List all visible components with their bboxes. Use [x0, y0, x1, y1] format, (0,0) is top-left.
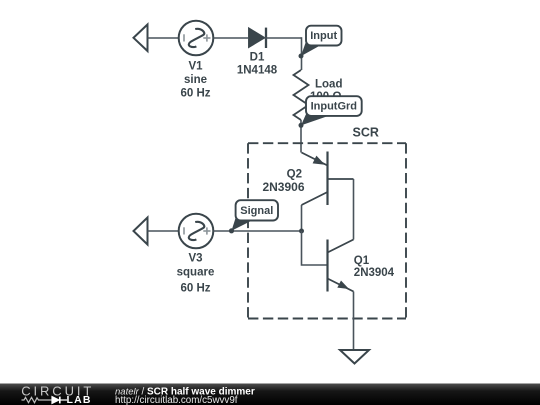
label V3 — [177, 253, 215, 295]
node Input junction — [299, 54, 304, 59]
logo CIRCUIT — [21, 384, 94, 399]
svg-text:2N3904: 2N3904 — [354, 267, 395, 279]
svg-text:Load: Load — [315, 79, 342, 91]
ground — [340, 350, 369, 364]
node Signal junction — [229, 228, 234, 233]
svg-text:Signal: Signal — [240, 205, 273, 217]
flag InputGrd — [301, 96, 362, 125]
logo LAB — [67, 394, 92, 405]
logo doodle resistor+diode — [22, 397, 68, 404]
svg-text:InputGrd: InputGrd — [311, 101, 357, 113]
wire — [265, 37, 302, 39]
node Q2 collector junction — [299, 229, 304, 234]
svg-text:V3: V3 — [188, 253, 202, 265]
svg-text:sine: sine — [184, 74, 207, 86]
footer bar — [0, 384, 540, 405]
svg-text:60 Hz: 60 Hz — [180, 88, 210, 100]
wire — [353, 292, 355, 351]
value label 100 ohm (mostly hidden) — [310, 91, 342, 103]
label V1 — [180, 60, 210, 99]
label D1 — [237, 51, 278, 76]
svg-text:60 Hz: 60 Hz — [180, 282, 210, 294]
svg-text:D1: D1 — [250, 51, 265, 63]
wire — [301, 37, 303, 70]
label Q2 — [262, 169, 304, 195]
label SCR — [353, 125, 379, 139]
flag Input — [301, 26, 342, 57]
port terminal bottom-left — [134, 218, 148, 245]
resistor Load — [294, 70, 309, 120]
footer title — [115, 386, 255, 405]
svg-text:2N3906: 2N3906 — [262, 180, 304, 194]
svg-text:Input: Input — [310, 30, 337, 42]
wire Signal — [213, 230, 301, 232]
label Load — [315, 79, 342, 91]
wire — [301, 205, 303, 231]
wire — [148, 37, 179, 39]
flag Signal — [232, 200, 279, 231]
svg-text:V1: V1 — [188, 60, 203, 72]
svg-text:SCR: SCR — [353, 125, 379, 139]
wire — [213, 37, 248, 39]
wire cross-couple right — [353, 179, 355, 240]
svg-text:LAB: LAB — [67, 394, 92, 405]
flag text InputGrd — [311, 101, 357, 113]
transistor Q1 (NPN 2N3904) — [328, 240, 354, 292]
SCR dashed box — [248, 143, 406, 318]
svg-text:1N4148: 1N4148 — [237, 65, 278, 77]
voltage source V1 — [179, 21, 214, 56]
diode D1 — [249, 28, 266, 48]
node InputGrd junction — [299, 123, 304, 128]
flag text Input — [310, 30, 337, 42]
transistor Q2 (PNP 2N3906) — [302, 152, 354, 206]
voltage source V3 — [179, 214, 214, 249]
wire — [300, 120, 302, 153]
flag text Signal — [240, 205, 273, 217]
svg-text:Q2: Q2 — [287, 169, 302, 181]
svg-text:square: square — [177, 266, 215, 278]
svg-text:http://circuitlab.com/c5wvv9f: http://circuitlab.com/c5wvv9f — [115, 395, 238, 405]
label Q1 — [354, 255, 395, 279]
port terminal top-left — [134, 25, 148, 52]
svg-text:Q1: Q1 — [354, 255, 370, 267]
wire — [148, 230, 179, 232]
wire — [302, 231, 328, 265]
